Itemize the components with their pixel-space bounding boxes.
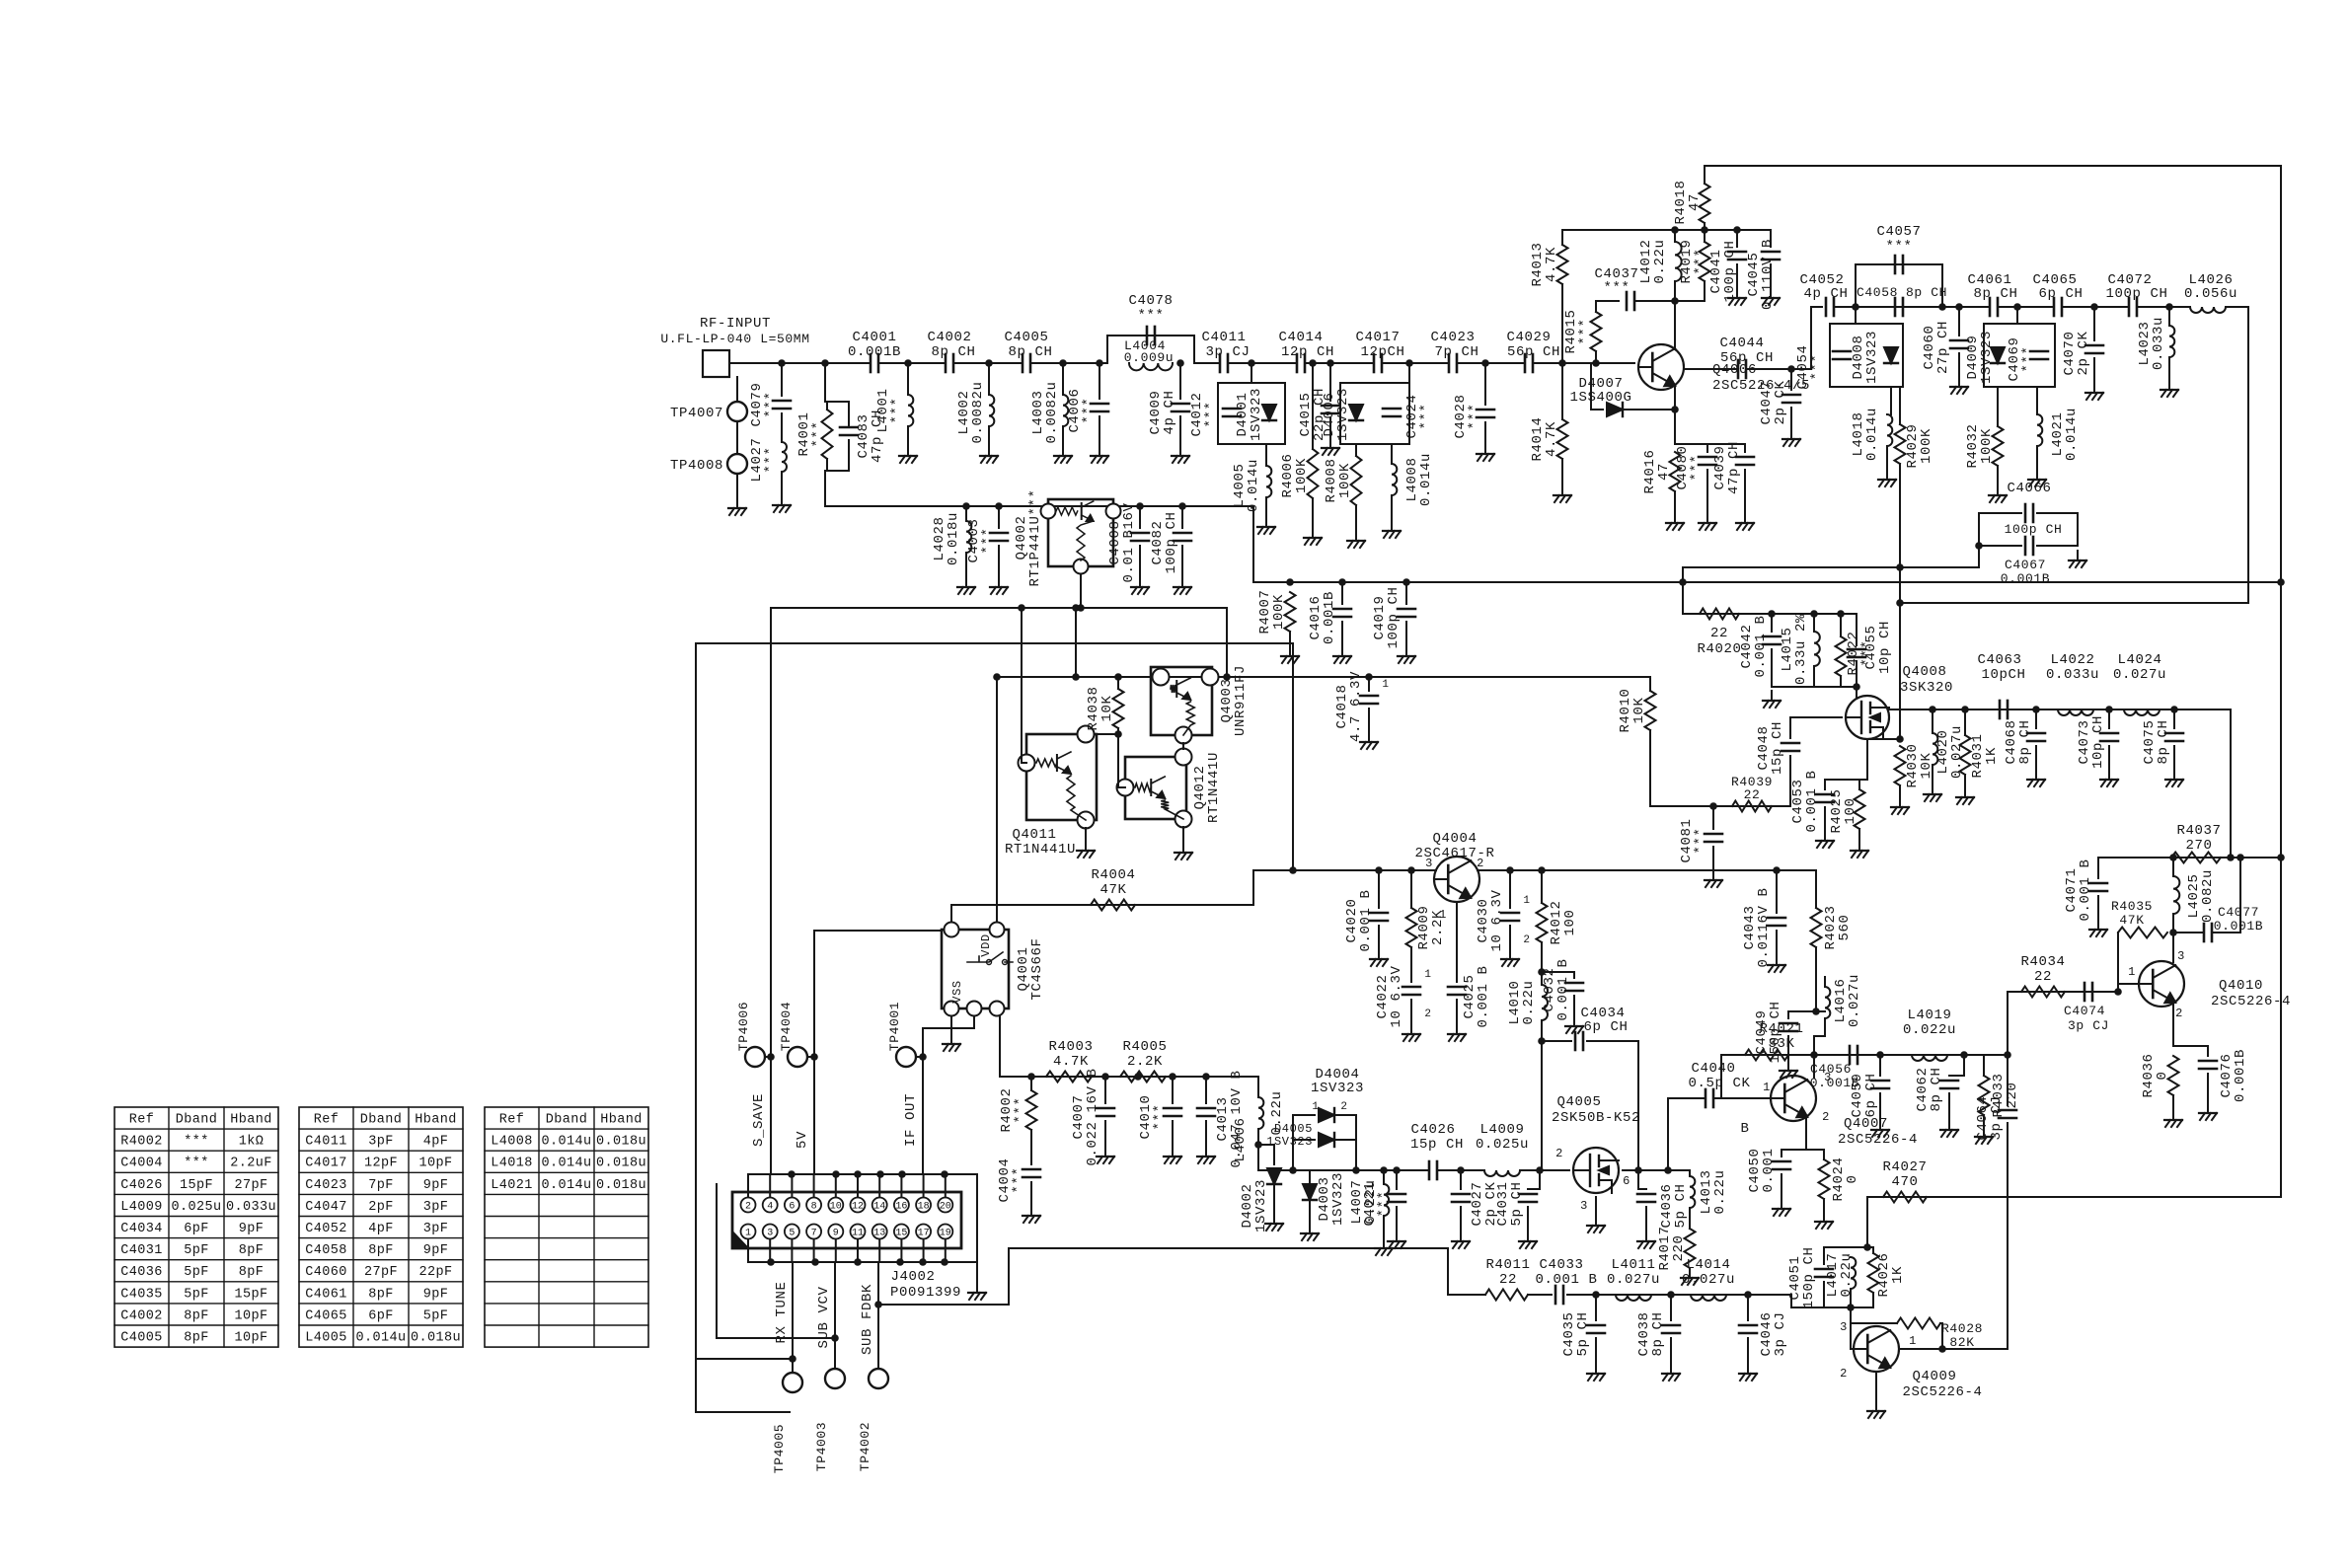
pin 20 of J4002 xyxy=(938,1198,952,1213)
resistor R4019 xyxy=(1700,242,1710,281)
ground under C4028 xyxy=(1477,444,1494,461)
pin 19 of J4002 xyxy=(938,1225,952,1239)
wire Q4006 emitter xyxy=(1674,386,1676,444)
svg-text:1K: 1K xyxy=(1890,1266,1906,1284)
inductor L4003 xyxy=(1063,395,1068,426)
capacitor C4012 xyxy=(1223,409,1241,416)
wire source to R4030 xyxy=(1867,738,1900,740)
svg-text:100K: 100K xyxy=(1979,428,1995,464)
svg-text:C4011: C4011 xyxy=(1201,330,1246,345)
svg-text:8p CH: 8p CH xyxy=(1973,286,2017,302)
wire xyxy=(1781,1150,1782,1157)
junction xyxy=(1701,226,1708,234)
capacitor C4002 xyxy=(946,354,953,372)
wire S_SAVE xyxy=(770,608,772,1174)
junction xyxy=(1536,1166,1544,1174)
junction xyxy=(1592,359,1600,367)
svg-text:L4011: L4011 xyxy=(1611,1257,1655,1273)
svg-text:560: 560 xyxy=(1837,914,1853,940)
wire pin stub xyxy=(813,1239,815,1262)
wire J4002 right wrap xyxy=(976,1174,978,1262)
wire xyxy=(807,1056,814,1058)
junction on J4002 bottom rail xyxy=(896,1258,904,1266)
inductor L4004 xyxy=(1129,363,1173,370)
wire SUB VCV xyxy=(834,1262,836,1369)
capacitor C4063 xyxy=(2000,701,2008,718)
svg-text:C4004: C4004 xyxy=(120,1157,163,1171)
wire xyxy=(1172,1121,1174,1147)
capacitor C4038 xyxy=(1662,1325,1680,1333)
wire out to L4013 xyxy=(1668,1170,1690,1176)
capacitor C4047 xyxy=(1782,395,1800,403)
wire pin stub xyxy=(835,1174,837,1197)
wire rail to D4001 block xyxy=(1251,363,1252,383)
svg-text:100K: 100K xyxy=(1337,463,1353,498)
svg-text:Q4011: Q4011 xyxy=(1012,827,1056,843)
ground under C4009 xyxy=(1172,446,1189,463)
svg-text:15pF: 15pF xyxy=(234,1287,267,1302)
svg-text:TP4002: TP4002 xyxy=(858,1422,872,1471)
svg-text:L4005: L4005 xyxy=(305,1331,347,1346)
junction xyxy=(2277,854,2285,861)
junction xyxy=(1178,502,1186,510)
wire xyxy=(965,506,967,521)
junction on J4002 bottom rail xyxy=(811,1258,819,1266)
svg-text:19: 19 xyxy=(940,1229,951,1239)
capacitor C4034 xyxy=(1575,1032,1583,1050)
svg-text:1SV323: 1SV323 xyxy=(1266,1135,1313,1149)
svg-text:C4060: C4060 xyxy=(305,1265,347,1280)
resistor R4015 xyxy=(1591,312,1602,351)
junction xyxy=(1309,359,1317,367)
wire down to switch-row rail xyxy=(824,471,826,506)
wire C4079 to L4027 xyxy=(781,413,783,442)
junction on J4002 bottom rail xyxy=(919,1258,927,1266)
wire IF OUT xyxy=(922,1028,924,1174)
pin 18 of J4002 xyxy=(916,1198,931,1213)
junction xyxy=(904,359,912,367)
svg-text:1SV323: 1SV323 xyxy=(1864,331,1880,384)
test point TP4001 xyxy=(896,1047,916,1067)
svg-text:***: *** xyxy=(763,391,779,417)
wire rail down to R4001/C4083 xyxy=(824,363,826,402)
wire xyxy=(1334,1139,1356,1141)
capacitor C4001 xyxy=(871,354,878,372)
svg-text:2SC5226-4: 2SC5226-4 xyxy=(2211,994,2291,1009)
wire chain down to mixer xyxy=(2230,709,2232,858)
wire L4027 to gnd xyxy=(781,472,783,495)
wire xyxy=(2097,858,2099,878)
wire xyxy=(1964,1055,1984,1076)
wire xyxy=(848,440,850,471)
wire node to D4008 block xyxy=(1855,307,1857,324)
wire pin stub xyxy=(923,1239,925,1262)
pin 14 of J4002 xyxy=(872,1198,887,1213)
junction xyxy=(1096,359,1103,367)
ground under C4043 xyxy=(1768,955,1785,972)
inductor L4006 xyxy=(1258,1097,1263,1129)
wire emitter row xyxy=(1675,443,1745,445)
svg-text:***: *** xyxy=(810,420,826,447)
capacitor C4058 xyxy=(1895,298,1903,316)
capacitor C4016 xyxy=(1333,609,1351,617)
svg-text:4p CH: 4p CH xyxy=(1162,390,1177,434)
svg-text:L4009: L4009 xyxy=(1479,1122,1524,1138)
wire xyxy=(1595,1338,1597,1364)
wire xyxy=(1460,1170,1462,1189)
svg-text:C4034: C4034 xyxy=(120,1222,163,1236)
svg-text:6p CH: 6p CH xyxy=(1583,1019,1628,1035)
svg-text:6pF: 6pF xyxy=(184,1222,209,1236)
wire R4018 to rail xyxy=(1704,223,1706,230)
capacitor C4083 xyxy=(840,427,858,435)
svg-text:L4019: L4019 xyxy=(1907,1008,1951,1023)
junction xyxy=(1853,683,1860,691)
svg-text:C4052: C4052 xyxy=(305,1222,347,1236)
svg-text:***: *** xyxy=(1152,1103,1168,1130)
wire xyxy=(1736,230,1738,247)
svg-text:TP4004: TP4004 xyxy=(779,1002,794,1051)
wire pin stub xyxy=(791,1174,793,1197)
wire xyxy=(1587,1041,1638,1170)
ground under C4041 xyxy=(1728,288,1746,305)
diode D4006 xyxy=(1349,405,1363,420)
wire xyxy=(1744,444,1746,452)
wire xyxy=(1983,1115,1985,1127)
wire xyxy=(1368,709,1370,732)
svg-text:27pF: 27pF xyxy=(364,1265,398,1280)
capacitor C4081 xyxy=(1705,834,1722,842)
wire IF to C4064 xyxy=(2007,1055,2009,1105)
capacitor C4064 xyxy=(1999,1110,2016,1118)
wire TP4007 to TP4008 xyxy=(736,421,738,454)
junction xyxy=(1407,866,1415,874)
svg-text:***: *** xyxy=(1603,280,1630,296)
wire left bus B riser xyxy=(716,1184,718,1338)
wire C4044 to C4052 riser xyxy=(1746,307,1822,369)
svg-text:10: 10 xyxy=(830,1202,842,1213)
wire R4029 down to source bias xyxy=(1899,464,1901,739)
svg-text:12p CH: 12p CH xyxy=(1281,344,1334,360)
wire C4037 to collector xyxy=(1634,300,1675,302)
capacitor C4055 xyxy=(1848,649,1865,657)
svg-text:0: 0 xyxy=(1845,1174,1860,1183)
svg-text:0.0116V B: 0.0116V B xyxy=(1756,887,1772,967)
capacitor C4043 xyxy=(1768,918,1785,926)
junction xyxy=(2004,1051,2011,1059)
transistor Q4007 xyxy=(1771,1076,1816,1121)
ground under C4050 xyxy=(1773,1199,1790,1216)
wire switch top to R4004 row xyxy=(950,905,952,922)
wire rail to C4009 xyxy=(1179,363,1181,399)
svg-text:3: 3 xyxy=(767,1229,773,1239)
capacitor C4007 xyxy=(1097,1108,1114,1116)
svg-text:Q4008: Q4008 xyxy=(1902,664,1946,680)
ground under Q4009 xyxy=(1867,1401,1885,1418)
junction xyxy=(1671,226,1679,234)
junction xyxy=(1664,1166,1672,1174)
wire xyxy=(2108,709,2110,728)
wire xyxy=(1949,1075,1964,1077)
ground under C4049 xyxy=(1780,1061,1797,1078)
svg-text:L4006: L4006 xyxy=(1233,1117,1249,1161)
wire xyxy=(1099,416,1100,446)
svg-text:16: 16 xyxy=(895,1202,907,1213)
wire collector rail xyxy=(1510,869,1816,871)
resistor R4004 xyxy=(1091,900,1135,911)
wire xyxy=(1273,1184,1275,1214)
wire xyxy=(1689,1208,1691,1229)
inductor L4018 xyxy=(1887,414,1892,446)
svg-text:C4047: C4047 xyxy=(305,1200,347,1215)
junction xyxy=(1773,866,1781,874)
wire xyxy=(2097,896,2099,920)
wire D4009 to L4021 xyxy=(2036,387,2038,414)
junction xyxy=(1169,1073,1176,1081)
wire xyxy=(1383,1170,1385,1184)
ground under C4070 xyxy=(2085,383,2103,400)
svg-text:8: 8 xyxy=(811,1202,817,1213)
wire xyxy=(1405,582,1407,604)
wire pin stub xyxy=(791,1239,793,1262)
svg-text:150p CH: 150p CH xyxy=(1768,1001,1783,1063)
inductor L4019 xyxy=(1912,1055,1947,1061)
wire xyxy=(1457,362,1525,364)
junction on J4002 top rail xyxy=(854,1170,862,1178)
wire xyxy=(1899,785,1901,797)
svg-text:27p CH: 27p CH xyxy=(1935,321,1951,374)
wire xyxy=(1879,1055,1881,1076)
capacitor C4048 xyxy=(1781,743,1799,751)
wire xyxy=(953,362,1023,364)
capacitor C4005 xyxy=(1023,354,1030,372)
wire xyxy=(2172,858,2174,876)
svg-text:TP4005: TP4005 xyxy=(772,1424,787,1473)
svg-text:0.22u: 0.22u xyxy=(1712,1169,1728,1214)
junction xyxy=(1896,735,1904,743)
junction xyxy=(1709,802,1717,810)
svg-text:0.001B: 0.001B xyxy=(2001,571,2050,586)
capacitor C4067 xyxy=(2025,537,2033,555)
ground under C4060 xyxy=(1950,377,1968,394)
inductor L4022 xyxy=(2058,709,2093,715)
junction xyxy=(2032,706,2040,713)
junction xyxy=(1101,1073,1109,1081)
svg-text:0.027u: 0.027u xyxy=(1682,1272,1735,1288)
svg-text:8p CH: 8p CH xyxy=(1906,285,1947,300)
svg-text:0.001 B: 0.001 B xyxy=(1535,1272,1597,1288)
parts table 2 (Dband/Hband values) xyxy=(299,1107,463,1347)
svg-text:10pCH: 10pCH xyxy=(1981,667,2025,683)
capacitor C4033 xyxy=(1555,1286,1563,1304)
pin 8 of J4002 xyxy=(806,1198,821,1213)
test point TP4007 xyxy=(727,402,747,421)
junction xyxy=(1671,297,1679,305)
svg-text:4p CH: 4p CH xyxy=(1803,286,1848,302)
junction xyxy=(2105,706,2113,713)
diode D4002 xyxy=(1267,1168,1281,1184)
wire parallel top xyxy=(827,401,849,403)
svg-text:10 6.3V: 10 6.3V xyxy=(1489,889,1505,951)
pin 1 of J4002 xyxy=(741,1225,756,1239)
ground under C4019 xyxy=(1398,646,1415,663)
svg-text:C4033: C4033 xyxy=(1539,1257,1583,1273)
capacitor C4022 (electrolytic) xyxy=(1402,987,1420,995)
svg-text:22: 22 xyxy=(1744,787,1761,802)
junction xyxy=(1938,303,1946,311)
wire xyxy=(1030,1182,1032,1206)
ground under C4045 xyxy=(1762,288,1780,305)
junction xyxy=(1960,1051,1968,1059)
svg-text:R4002: R4002 xyxy=(120,1135,163,1150)
junction xyxy=(1538,968,1546,976)
junction xyxy=(1810,610,1818,618)
svg-text:0.001B: 0.001B xyxy=(2233,1049,2248,1102)
parts table 1 (Dband/Hband values) xyxy=(114,1107,278,1347)
capacitor C4009 xyxy=(1172,404,1189,411)
wire to C4060 xyxy=(1958,307,1960,336)
svg-text:0.5p CK: 0.5p CK xyxy=(1688,1076,1750,1091)
svg-text:17: 17 xyxy=(918,1229,930,1239)
svg-text:270: 270 xyxy=(2185,838,2212,854)
svg-text:0.001 B: 0.001 B xyxy=(2078,859,2093,921)
wire D4006 block to L4008 xyxy=(1391,444,1393,464)
svg-text:P0091399: P0091399 xyxy=(890,1285,961,1301)
svg-text:C4005: C4005 xyxy=(1004,330,1048,345)
inductor L4012 xyxy=(1675,242,1682,281)
wire 5V xyxy=(813,931,815,1174)
inductor L4013 xyxy=(1690,1176,1695,1208)
wire C4057 bracket xyxy=(1856,264,1942,307)
wire Q4009 collector xyxy=(1899,1348,2008,1350)
ground under C4080 xyxy=(1699,513,1716,530)
svg-text:9pF: 9pF xyxy=(423,1243,449,1258)
svg-text:C4017: C4017 xyxy=(1355,330,1400,345)
wire xyxy=(2173,709,2175,728)
wire C4034 bracket xyxy=(1542,1040,1571,1042)
varactor block D4006 xyxy=(1340,383,1409,444)
wire xyxy=(1341,622,1343,646)
inductor L4016 xyxy=(1825,987,1830,1018)
svg-text:R4005: R4005 xyxy=(1122,1039,1167,1055)
junction xyxy=(1876,1051,1884,1059)
svg-text:0.033u: 0.033u xyxy=(2151,317,2166,370)
wire S_SAVE bus corner xyxy=(1226,608,1228,677)
wire xyxy=(998,506,1000,528)
pin 6 of J4002 xyxy=(785,1198,799,1213)
resistor R4022 xyxy=(1836,636,1847,676)
svg-text:11: 11 xyxy=(852,1229,864,1239)
junction xyxy=(2170,706,2178,713)
wire xyxy=(1541,870,1543,903)
wire C4040 from Q4005 xyxy=(1668,1097,1706,1099)
wire pin stub xyxy=(878,1174,880,1197)
junction xyxy=(874,1301,882,1308)
varactor block D4001 xyxy=(1218,383,1285,444)
wire Q4006 collector xyxy=(1674,301,1676,348)
svg-text:8pF: 8pF xyxy=(239,1265,265,1280)
junction xyxy=(2236,854,2244,861)
svg-text:0.025u: 0.025u xyxy=(1476,1137,1529,1153)
capacitor C4069 xyxy=(2030,351,2048,359)
wire SUB FDBK route xyxy=(878,1248,1009,1305)
svg-text:5V: 5V xyxy=(795,1131,810,1149)
wire xyxy=(2062,306,2129,308)
connector J4002 xyxy=(732,1192,961,1248)
svg-text:100p CH: 100p CH xyxy=(2105,286,2167,302)
svg-text:0.33u 2%: 0.33u 2% xyxy=(1793,614,1809,685)
svg-text:1: 1 xyxy=(745,1229,751,1239)
capacitor C4068 xyxy=(2027,733,2045,741)
wire pin stub xyxy=(813,1174,815,1197)
svg-text:***: *** xyxy=(889,397,905,423)
resistor R4008 xyxy=(1351,456,1362,505)
svg-text:12pCH: 12pCH xyxy=(1360,344,1404,360)
wire xyxy=(1355,505,1357,531)
svg-text:***: *** xyxy=(980,527,996,554)
wire xyxy=(1341,582,1343,604)
svg-text:10pF: 10pF xyxy=(418,1157,452,1171)
svg-text:C4067: C4067 xyxy=(2005,558,2046,572)
resistor R4023 xyxy=(1811,908,1822,947)
wire chain to tank bottom xyxy=(1791,1295,1824,1307)
capacitor C4015 xyxy=(1322,406,1339,413)
resistor R4032 xyxy=(1993,426,2004,466)
ground under R4030 xyxy=(1891,797,1909,814)
svg-text:3p CJ: 3p CJ xyxy=(1989,1095,2005,1140)
svg-text:8pF: 8pF xyxy=(368,1287,394,1302)
resistor R4005 xyxy=(1120,1072,1166,1083)
junction xyxy=(985,359,993,367)
svg-text:0.0082u: 0.0082u xyxy=(970,381,986,443)
wire R4038 to ports xyxy=(1117,728,1119,787)
FET Q4008 xyxy=(1846,696,1889,739)
svg-text:1K: 1K xyxy=(1984,747,2000,765)
resistor R4017 xyxy=(1685,1229,1696,1268)
wire xyxy=(907,426,909,446)
svg-text:C4031: C4031 xyxy=(120,1243,163,1258)
digital transistor Q4003 UNR911FJ xyxy=(1151,667,1219,744)
svg-text:2pF: 2pF xyxy=(368,1200,394,1215)
wire xyxy=(736,474,738,498)
wire xyxy=(1997,387,1999,426)
inductor L4009 xyxy=(1484,1170,1520,1176)
ground under C4006 xyxy=(1091,446,1108,463)
svg-text:Hband: Hband xyxy=(415,1113,457,1128)
junction on J4002 top rail xyxy=(876,1170,884,1178)
inductor L4026 xyxy=(2190,307,2226,313)
svg-text:100K: 100K xyxy=(1919,428,1934,464)
svg-text:2: 2 xyxy=(1477,857,1484,870)
svg-text:18: 18 xyxy=(918,1202,930,1213)
svg-text:5p CH: 5p CH xyxy=(1509,1181,1525,1226)
svg-text:1SS400G: 1SS400G xyxy=(1569,390,1631,406)
svg-text:L4009: L4009 xyxy=(120,1200,163,1215)
junction on J4002 top rail xyxy=(788,1170,796,1178)
svg-text:RX TUNE: RX TUNE xyxy=(774,1281,790,1343)
wire bias to L4006 xyxy=(1257,1077,1259,1097)
wire xyxy=(1872,1247,1874,1253)
svg-text:***: *** xyxy=(184,1135,209,1150)
svg-text:0.018u: 0.018u xyxy=(596,1135,646,1150)
wire R4010 top xyxy=(1649,677,1651,691)
inductor L4015 xyxy=(1814,632,1820,666)
svg-text:***: *** xyxy=(1693,248,1708,274)
wire xyxy=(1312,498,1314,528)
capacitor C4021 xyxy=(1388,1194,1405,1202)
svg-text:15p CH: 15p CH xyxy=(1410,1137,1464,1153)
wire mixer row xyxy=(2098,857,2281,859)
